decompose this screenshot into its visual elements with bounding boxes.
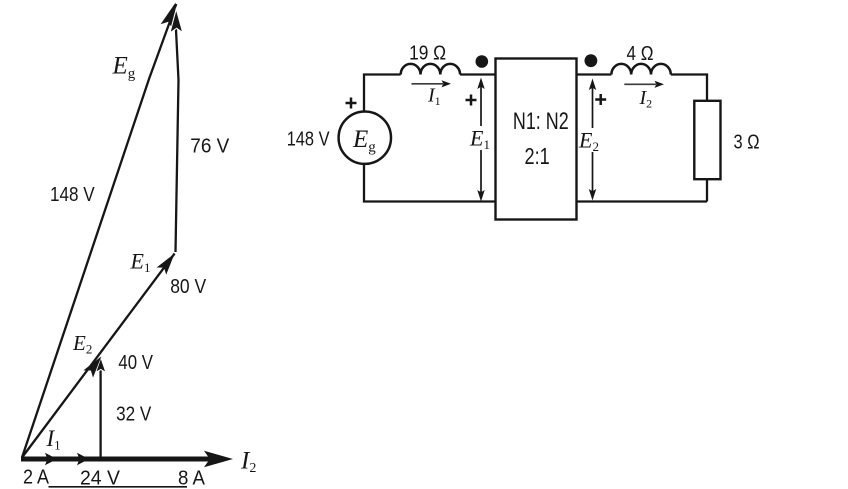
svg-text:3 Ω: 3 Ω <box>734 132 760 154</box>
phasor axis I2 (thick horizontal vector) <box>21 451 233 467</box>
wire left side bottom (source to box) <box>364 164 496 202</box>
svg-text:I1: I1 <box>46 426 61 453</box>
svg-text:24 V: 24 V <box>80 468 121 489</box>
polarity dot primary <box>476 55 489 68</box>
wire L1 to transformer box <box>460 73 495 75</box>
wire bottom right (box to load) <box>577 200 708 202</box>
svg-text:32 V: 32 V <box>116 403 152 425</box>
transformer box N1:N2 <box>496 59 577 220</box>
label E1 (circuit) <box>469 126 491 153</box>
svg-text:8 A: 8 A <box>178 468 206 489</box>
polarity dot secondary <box>585 54 598 67</box>
svg-text:Eg: Eg <box>112 53 136 83</box>
svg-text:I2: I2 <box>240 447 256 476</box>
svg-text:I2: I2 <box>639 87 653 111</box>
phasor vector Eg (long vector to top) <box>22 3 176 458</box>
source Eg circle <box>339 112 391 164</box>
wire top-left (source to L1) <box>364 75 401 112</box>
svg-text:76 V: 76 V <box>190 135 230 157</box>
inductor L2 4ohm coil <box>611 64 670 75</box>
plus sign at source <box>346 98 357 109</box>
svg-text:148 V: 148 V <box>50 184 95 206</box>
voltage arrow E1 (double headed) <box>477 78 484 202</box>
svg-text:19 Ω: 19 Ω <box>409 43 446 65</box>
phasor vector 76 V (tall near-vertical component) <box>170 9 183 252</box>
wire L2 to load corner <box>671 75 707 101</box>
wire resistor to bottom <box>706 179 708 201</box>
voltage arrow E2 (double headed) <box>589 79 596 201</box>
svg-text:40 V: 40 V <box>118 352 153 374</box>
resistor R 3ohm <box>694 101 720 179</box>
svg-text:148 V: 148 V <box>287 129 330 151</box>
svg-text:2:1: 2:1 <box>525 143 550 169</box>
current arrow I1 <box>412 80 452 87</box>
plus sign at E1 <box>466 95 477 106</box>
I1 marker arrowhead (2 A) on axis <box>45 453 57 465</box>
label E2 (circuit) <box>578 128 601 155</box>
baseline rule under phasor labels <box>49 486 188 488</box>
svg-text:I1: I1 <box>427 85 441 109</box>
svg-text:N1: N2: N1: N2 <box>513 108 569 135</box>
phasor vector E1 (diagonal from origin, E2 arrowhead partway) <box>22 254 175 458</box>
inductor L1 19ohm coil <box>401 64 460 75</box>
svg-text:E1: E1 <box>130 249 151 276</box>
phasor vector 32 V (vertical component) <box>96 358 106 459</box>
current arrow I2 <box>624 81 664 88</box>
wire box to L2 <box>577 73 612 75</box>
24 V marker arrowhead on axis <box>77 453 89 465</box>
phasor arrowhead E2 on diagonal <box>83 356 101 377</box>
svg-text:2 A: 2 A <box>23 467 50 489</box>
svg-text:E2: E2 <box>72 331 92 357</box>
svg-text:80 V: 80 V <box>170 276 207 298</box>
svg-text:4 Ω: 4 Ω <box>627 43 654 65</box>
plus sign at E2 <box>595 94 606 105</box>
